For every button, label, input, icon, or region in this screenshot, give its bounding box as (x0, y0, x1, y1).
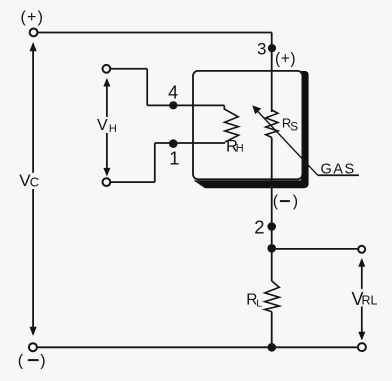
svg-text:C: C (30, 175, 39, 190)
wire vertical to node 3 and Rs (271, 33, 273, 113)
arrow through RS (gas) (256, 109, 318, 175)
resistor RL zigzag (265, 281, 280, 312)
resistor RH zigzag (224, 105, 238, 142)
resistor RS zigzag (266, 110, 278, 138)
terminal top-left (+) (30, 29, 38, 37)
terminal VRL top (358, 246, 365, 253)
Vc arrow lower segment (32, 189, 34, 334)
Vc arrow upper segment (32, 44, 34, 173)
node 2 (267, 222, 276, 231)
svg-text:L: L (256, 297, 262, 309)
svg-text:S: S (290, 119, 298, 133)
svg-text:): ) (40, 353, 45, 370)
junction to VRL (267, 244, 276, 253)
node 4 (169, 101, 177, 109)
svg-text:(+): (+) (21, 9, 45, 26)
wire to Vh bottom terminal (110, 181, 154, 183)
svg-text:(: ( (273, 193, 279, 210)
wire to node 4 and Rh top (147, 104, 224, 106)
wire Rs bottom down to node 2 and RL (271, 138, 273, 282)
wire down (154, 143, 156, 182)
terminal bottom-left (-) (29, 343, 37, 351)
Vc arrowhead up (30, 42, 37, 51)
wire Vh top to corner (110, 68, 147, 70)
VRL arrow lower (361, 306, 363, 338)
junction dot bottom (268, 343, 277, 352)
Vh arrow lower (106, 133, 108, 175)
svg-text:H: H (109, 123, 117, 135)
wire RL bottom (271, 312, 273, 348)
sensor box shadow (194, 71, 309, 188)
svg-text:(: ( (18, 353, 24, 370)
svg-text:(+): (+) (275, 50, 296, 67)
terminal Vh bottom (103, 178, 111, 186)
node 3 (268, 44, 276, 52)
svg-text:V: V (97, 117, 108, 134)
svg-text:3: 3 (257, 40, 266, 59)
svg-text:1: 1 (169, 148, 179, 169)
Vh arrow upper (106, 80, 108, 117)
svg-text:RL: RL (362, 294, 378, 308)
wire node1 left (155, 142, 174, 144)
sensor box U1 (gas sensor package) (193, 71, 302, 179)
wire to VRL top terminal (272, 248, 359, 250)
wire node1 to Rh bottom (173, 142, 225, 144)
VRL arrow upper (361, 260, 363, 289)
svg-text:4: 4 (168, 83, 178, 103)
wire bottom horizontal (37, 346, 358, 348)
Vc arrowhead down (30, 327, 37, 336)
terminal Vh top (103, 65, 111, 73)
svg-text:GAS: GAS (321, 161, 356, 177)
node 1 (169, 139, 178, 148)
wire corner down (146, 69, 148, 106)
svg-text:): ) (293, 193, 298, 210)
svg-text:H: H (236, 142, 244, 154)
wire top horizontal (38, 32, 272, 34)
svg-text:2: 2 (254, 216, 264, 237)
GAS underline (318, 174, 359, 176)
terminal VRL bottom (358, 343, 366, 351)
